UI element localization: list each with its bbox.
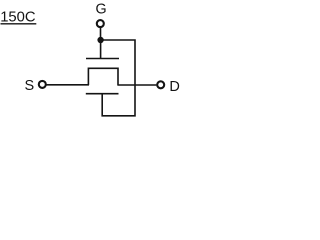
- wire gate stem: [100, 40, 102, 59]
- wire G: [100, 28, 102, 38]
- wire D: [118, 84, 157, 86]
- svg-text:D: D: [169, 79, 179, 95]
- svg-text:150C: 150C: [0, 9, 36, 25]
- svg-text:G: G: [96, 1, 107, 17]
- label 150C: [0, 9, 36, 25]
- svg-text:S: S: [25, 78, 35, 94]
- terminal G: [97, 20, 104, 27]
- wire gate return: [101, 40, 135, 116]
- wire S: [46, 84, 89, 86]
- junction dot: [97, 37, 103, 43]
- terminal S: [39, 81, 46, 88]
- transistor Q1: [86, 59, 119, 94]
- terminal D: [157, 81, 164, 88]
